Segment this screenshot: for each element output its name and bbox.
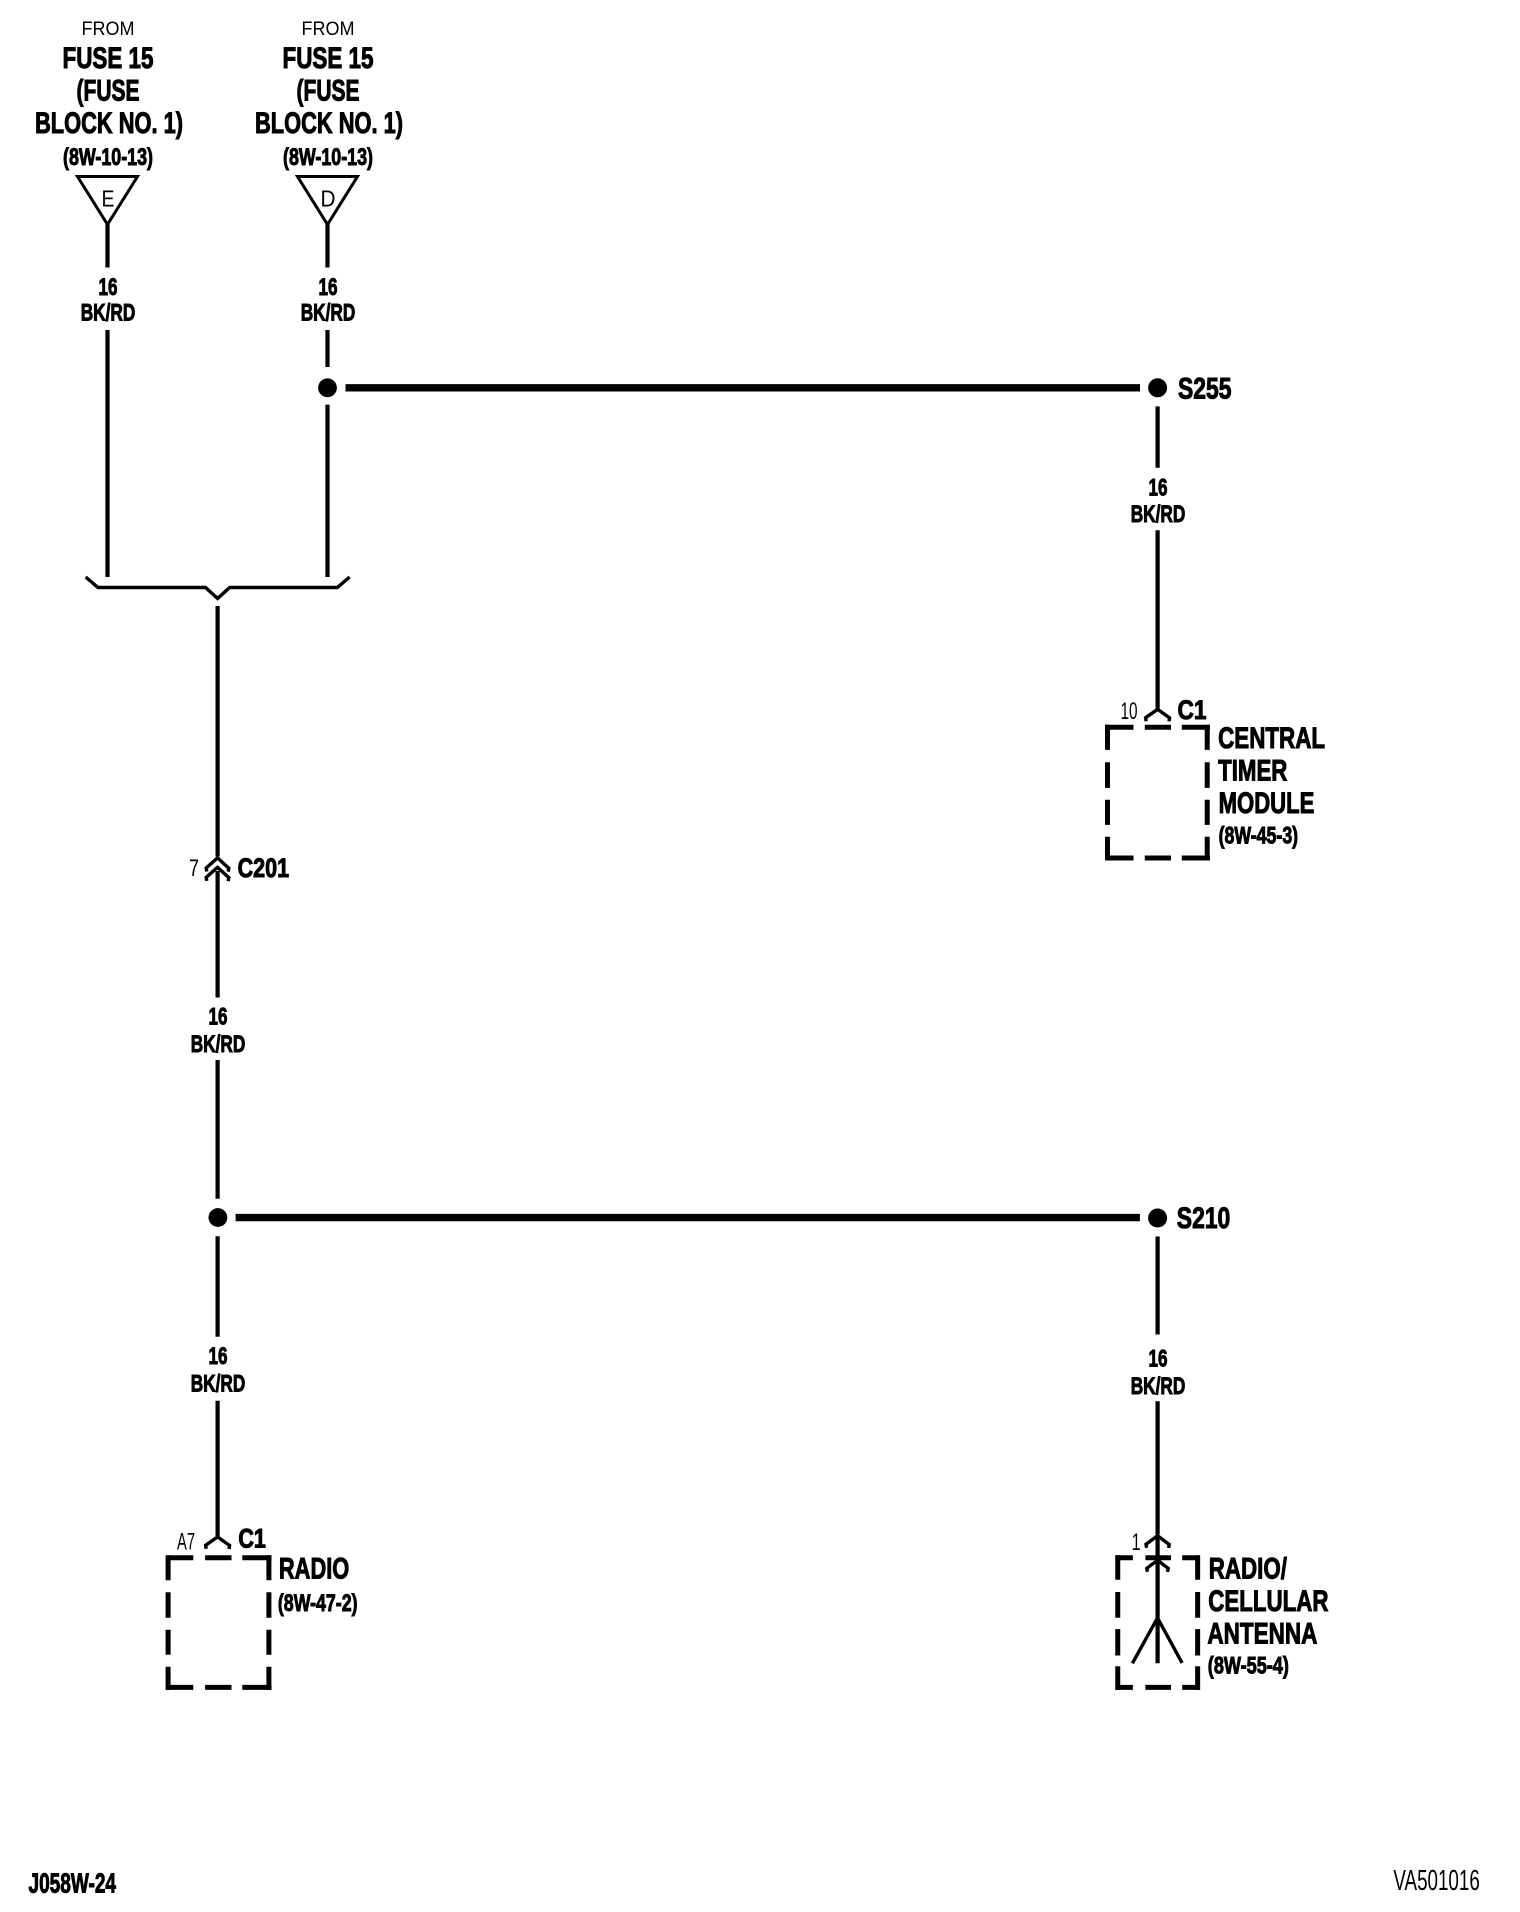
connector chevron pin 1 (antenna) xyxy=(1146,1536,1169,1548)
component box RADIO/CELLULAR ANTENNA (dashed) xyxy=(1115,1555,1199,1690)
svg-text:BK/RD: BK/RD xyxy=(191,1031,246,1058)
svg-text:(8W-10-13): (8W-10-13) xyxy=(63,144,153,171)
svg-text:CELLULAR: CELLULAR xyxy=(1208,1585,1328,1618)
connector triangle D (fuse feed) xyxy=(298,177,358,225)
svg-text:C201: C201 xyxy=(238,853,290,883)
antenna symbol inside box xyxy=(1132,1537,1182,1663)
svg-text:S210: S210 xyxy=(1177,1202,1231,1235)
wire S210 bus horizontal xyxy=(236,1214,1140,1221)
svg-text:VA501016: VA501016 xyxy=(1393,1865,1479,1897)
svg-text:16: 16 xyxy=(99,274,118,301)
node feed-E header text "FROM FUSE 15 (FUSE BLOCK NO. 1) (8W-10-13)" xyxy=(35,19,183,171)
node feed-D header text "FROM FUSE 15 (FUSE BLOCK NO. 1) (8W-10-13)" xyxy=(255,19,403,171)
svg-text:16: 16 xyxy=(209,1343,228,1370)
svg-text:16: 16 xyxy=(1149,1346,1168,1373)
wire right branch below S210 xyxy=(1155,1237,1159,1335)
label 16 BK/RD (E branch) xyxy=(81,274,136,327)
junction dot at D branch (S255 splice) xyxy=(318,378,337,397)
svg-text:(8W-55-4): (8W-55-4) xyxy=(1208,1652,1289,1679)
svg-text:1: 1 xyxy=(1132,1529,1141,1556)
svg-text:(8W-47-2): (8W-47-2) xyxy=(278,1590,358,1617)
component box RADIO (dashed) xyxy=(166,1555,272,1690)
svg-text:7: 7 xyxy=(189,855,199,882)
svg-text:TIMER: TIMER xyxy=(1218,755,1288,788)
wire D branch below splice to merge brace xyxy=(325,405,329,577)
svg-text:J058W-24: J058W-24 xyxy=(29,1867,117,1898)
connector triangle E (fuse feed) xyxy=(78,177,138,225)
svg-text:BLOCK NO. 1): BLOCK NO. 1) xyxy=(255,107,403,140)
label 16 BK/RD (CTM branch) xyxy=(1131,474,1186,528)
wire E branch lower xyxy=(105,330,109,577)
svg-text:C1: C1 xyxy=(238,1524,266,1554)
svg-text:D: D xyxy=(321,186,336,212)
svg-text:RADIO/: RADIO/ xyxy=(1209,1553,1288,1586)
junction dot right end (S255) xyxy=(1148,378,1167,397)
wire merged branch down to C201 xyxy=(216,606,220,857)
junction dot left (S210 splice) xyxy=(209,1208,228,1227)
svg-text:RADIO: RADIO xyxy=(279,1552,349,1585)
component box CENTRAL TIMER MODULE (dashed) xyxy=(1105,725,1210,861)
svg-text:FROM: FROM xyxy=(82,19,135,40)
in-line connector C201 double chevron, pin 7 xyxy=(206,858,229,881)
svg-text:(FUSE: (FUSE xyxy=(77,74,140,107)
wire D branch upper xyxy=(325,225,329,268)
svg-text:BK/RD: BK/RD xyxy=(81,300,136,327)
wire down to S210 splice xyxy=(216,1060,220,1199)
svg-text:C1: C1 xyxy=(1178,695,1207,725)
label 16 BK/RD (radio branch) xyxy=(191,1343,246,1397)
svg-text:10: 10 xyxy=(1121,698,1138,725)
connector chevron pin 10 C1 (CTM) xyxy=(1146,709,1170,721)
svg-text:FUSE 15: FUSE 15 xyxy=(283,42,374,75)
svg-text:S255: S255 xyxy=(1178,372,1232,405)
svg-text:BK/RD: BK/RD xyxy=(1131,501,1186,528)
svg-text:ANTENNA: ANTENNA xyxy=(1207,1618,1317,1651)
svg-text:BLOCK NO. 1): BLOCK NO. 1) xyxy=(35,107,183,140)
svg-text:(8W-45-3): (8W-45-3) xyxy=(1219,823,1299,850)
label 16 BK/RD (D branch) xyxy=(301,274,356,327)
component label RADIO (8W-47-2) xyxy=(278,1552,358,1617)
svg-text:FUSE 15: FUSE 15 xyxy=(63,42,154,75)
svg-text:MODULE: MODULE xyxy=(1219,787,1315,820)
svg-text:BK/RD: BK/RD xyxy=(301,300,356,327)
svg-text:16: 16 xyxy=(319,274,338,301)
svg-text:16: 16 xyxy=(209,1003,228,1030)
wire left branch below S210 xyxy=(216,1236,220,1336)
wire S255 bus horizontal xyxy=(346,384,1141,391)
splice brace merging E and D branches xyxy=(86,577,350,599)
wire below C201 xyxy=(216,871,220,998)
wire E branch upper xyxy=(105,225,109,268)
wire down to CTM connector xyxy=(1155,530,1159,708)
svg-text:E: E xyxy=(102,186,115,212)
component label RADIO/CELLULAR ANTENNA (8W-55-4) xyxy=(1207,1553,1328,1680)
wire D branch to splice dot xyxy=(325,330,329,367)
svg-text:CENTRAL: CENTRAL xyxy=(1218,722,1325,755)
svg-text:FROM: FROM xyxy=(302,19,355,40)
wire down to radio connector xyxy=(216,1401,220,1536)
component label CENTRAL TIMER MODULE (8W-45-3) xyxy=(1218,722,1325,849)
connector chevron pin A7 C1 (radio) xyxy=(206,1537,230,1549)
svg-text:BK/RD: BK/RD xyxy=(1131,1373,1186,1400)
junction dot right end (S210) xyxy=(1148,1209,1167,1228)
wire down to antenna connector xyxy=(1155,1401,1159,1534)
svg-text:(8W-10-13): (8W-10-13) xyxy=(283,144,373,171)
svg-text:16: 16 xyxy=(1149,474,1168,501)
label 16 BK/RD (antenna branch) xyxy=(1131,1346,1186,1401)
svg-text:A7: A7 xyxy=(177,1529,195,1556)
label 16 BK/RD (merged branch) xyxy=(191,1003,246,1058)
wire right branch below S255 xyxy=(1155,406,1159,467)
svg-text:BK/RD: BK/RD xyxy=(191,1370,246,1397)
svg-text:(FUSE: (FUSE xyxy=(297,74,360,107)
